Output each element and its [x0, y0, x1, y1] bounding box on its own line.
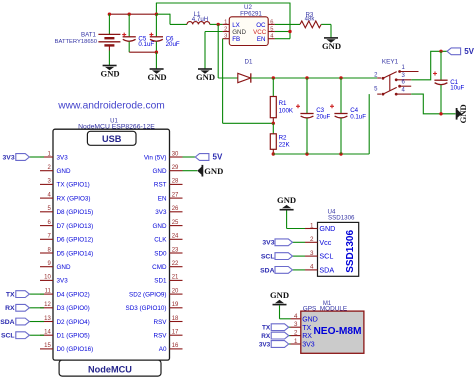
- svg-text:BATTERY18650: BATTERY18650: [55, 39, 97, 45]
- wire U2 VCC EN to VBAT rail: [275, 30, 292, 39]
- pin 17 RSV of U1: [154, 330, 183, 340]
- svg-text:3V3: 3V3: [3, 154, 15, 161]
- svg-text:RST: RST: [154, 182, 167, 189]
- svg-text:2: 2: [310, 236, 314, 243]
- svg-text:SCL: SCL: [261, 254, 275, 261]
- svg-text:USB: USB: [102, 134, 122, 144]
- capacitor C1 10uF: [433, 51, 465, 114]
- svg-text:GND: GND: [277, 195, 296, 205]
- svg-text:3V3: 3V3: [57, 154, 69, 161]
- wire net SDA to U4: [293, 269, 306, 271]
- svg-text:RSV: RSV: [154, 333, 168, 340]
- svg-text:10uF: 10uF: [450, 85, 464, 92]
- svg-text:16: 16: [172, 343, 179, 349]
- svg-text:OC: OC: [256, 22, 266, 29]
- wire U2 FB to R1/R2 divider: [223, 39, 274, 124]
- net flag RX at M1: [261, 332, 288, 340]
- svg-text:Vcc: Vcc: [319, 238, 331, 247]
- wire net 3V3 to U1 pin 1: [29, 156, 44, 158]
- wire net TX to M1: [289, 326, 291, 328]
- svg-text:3V3: 3V3: [259, 341, 271, 348]
- svg-text:0.1uF: 0.1uF: [138, 41, 154, 48]
- svg-text:29: 29: [172, 165, 179, 171]
- svg-text:GND: GND: [322, 41, 341, 51]
- svg-text:SD3 (GPIO10): SD3 (GPIO10): [126, 305, 167, 312]
- label BAT1 BATTERY18650: [55, 32, 97, 45]
- svg-text:6: 6: [270, 19, 273, 25]
- wire C5/C6 ground link: [129, 51, 158, 70]
- svg-text:SDA: SDA: [319, 265, 334, 274]
- svg-text:GND: GND: [57, 168, 71, 175]
- label R1 100K: [279, 100, 294, 114]
- svg-text:4: 4: [310, 264, 314, 271]
- pin 26 3V3 of U1: [155, 206, 182, 216]
- svg-text:SSD1306: SSD1306: [328, 214, 355, 221]
- pin 29 GND of U1: [153, 165, 183, 175]
- pin 23 SD0 of U1: [154, 247, 182, 257]
- svg-text:3V3: 3V3: [57, 278, 69, 285]
- wire U2 GND pin to ground: [205, 32, 223, 70]
- resistor R1 100K: [270, 78, 276, 123]
- svg-text:11: 11: [45, 288, 52, 294]
- svg-text:3V3: 3V3: [262, 240, 274, 247]
- svg-text:Vin (5V): Vin (5V): [144, 154, 167, 161]
- pin 2 GND of U1: [40, 165, 71, 175]
- ground above M1: [270, 290, 289, 305]
- svg-text:KEY1: KEY1: [382, 59, 399, 66]
- svg-text:GND: GND: [196, 72, 215, 82]
- op-amp U2 FP6291 boost converter IC: [223, 17, 275, 46]
- svg-text:TX: TX: [302, 325, 311, 332]
- svg-text:1: 1: [310, 222, 314, 229]
- label U4 SSD1306: [328, 209, 356, 222]
- svg-text:LX: LX: [232, 22, 240, 29]
- wire U2 OC to R3: [275, 23, 300, 25]
- svg-text:D7 (GPIO13): D7 (GPIO13): [57, 223, 94, 230]
- svg-text:3V3: 3V3: [155, 209, 167, 216]
- svg-text:D4 (GPIO2): D4 (GPIO2): [57, 291, 90, 298]
- svg-text:15: 15: [44, 343, 51, 349]
- svg-text:GND: GND: [319, 224, 335, 233]
- wire KEY1 pin 3 to 5V node: [411, 50, 447, 80]
- svg-text:3: 3: [294, 321, 298, 328]
- svg-text:13: 13: [44, 316, 51, 322]
- svg-text:12: 12: [44, 302, 51, 308]
- svg-text:4.7uH: 4.7uH: [192, 16, 209, 23]
- svg-text:RX: RX: [5, 305, 15, 312]
- svg-text:22K: 22K: [279, 142, 291, 149]
- wire KEY1 pin 4 and C1 to ground: [411, 94, 455, 115]
- wire net 3V3 to U4: [293, 241, 306, 243]
- battery BAT1 BATTERY18650: [98, 14, 120, 65]
- pin 5 D8 (GPIO15) of U1: [40, 206, 93, 216]
- svg-text:NodeMCU: NodeMCU: [88, 364, 132, 374]
- label M1 GPS_MODULE: [303, 301, 347, 313]
- svg-text:20uF: 20uF: [166, 41, 180, 48]
- ground at C5/C6: [148, 69, 167, 82]
- svg-text:CMD: CMD: [152, 264, 167, 271]
- svg-text:24: 24: [172, 234, 179, 240]
- svg-text:D5 (GPIO14): D5 (GPIO14): [57, 250, 94, 257]
- ground above U4: [277, 195, 296, 210]
- svg-text:3: 3: [310, 250, 314, 257]
- svg-text:26: 26: [172, 206, 179, 212]
- svg-text:SDA: SDA: [260, 267, 274, 274]
- net flag 3V3 at M1: [259, 341, 289, 349]
- net flag 3V3 at U4: [262, 239, 292, 247]
- ground at R3: [322, 38, 341, 51]
- svg-text:A0: A0: [159, 346, 167, 353]
- svg-text:RX: RX: [261, 333, 271, 340]
- pin numbers 1 2 3 of U2: [224, 19, 227, 39]
- svg-text:EN: EN: [158, 195, 167, 202]
- wire net SDA to U1 pin 13: [29, 321, 44, 323]
- pin 20 SD2 (GPIO9) of U1: [129, 288, 182, 298]
- svg-text:48k: 48k: [305, 17, 316, 23]
- pin 10 3V3 of U1: [40, 275, 68, 285]
- svg-text:D1: D1: [245, 59, 253, 66]
- wire bottom rail to KEY1 pin 5: [273, 94, 369, 156]
- pin names LX GND FB of U2: [232, 22, 246, 43]
- wire net SCL to U4: [293, 255, 306, 257]
- svg-text:17: 17: [172, 330, 179, 336]
- pin 28 RST of U1: [154, 179, 183, 189]
- net flag TX at M1: [262, 324, 289, 332]
- net flag SCL: [1, 332, 29, 340]
- svg-text:TX: TX: [262, 325, 271, 332]
- net flag 3V3: [3, 154, 30, 162]
- junction R2 bottom: [272, 152, 275, 155]
- svg-text:GND: GND: [101, 68, 120, 78]
- net flag 5V at U1 Vin: [195, 153, 223, 162]
- wire L1 to U2 LX with junction node LX: [210, 23, 223, 26]
- pin numbers 6 5 4 of U2: [270, 19, 274, 39]
- pin 16 A0 of U1: [159, 343, 183, 353]
- label U2 FP6291: [240, 4, 262, 17]
- USB connector box of U1: [87, 131, 136, 145]
- wire net 3V3 to M1: [289, 343, 291, 345]
- ground at C1: [457, 104, 469, 123]
- wire U1 GND pin 29: [183, 170, 198, 172]
- svg-text:GND: GND: [232, 29, 246, 36]
- svg-text:GND: GND: [204, 166, 223, 176]
- pin 25 GND of U1: [153, 220, 183, 230]
- svg-text:D8 (GPIO15): D8 (GPIO15): [57, 209, 94, 216]
- label L1 4.7uH: [192, 11, 209, 23]
- svg-text:TX (GPIO1): TX (GPIO1): [57, 182, 90, 189]
- svg-text:10: 10: [44, 275, 51, 281]
- pin 8 D5 (GPIO14) of U1: [40, 247, 93, 257]
- pin 1 3V3 of U1: [40, 151, 68, 161]
- text SSD1306 vertical: [345, 230, 356, 273]
- resistor R3 48k: [300, 21, 321, 28]
- pin 18 RSV of U1: [154, 316, 183, 326]
- wire ground to U4 GND pin: [287, 211, 305, 229]
- pin names OC VCC EN of U2: [253, 22, 267, 43]
- svg-text:R1: R1: [279, 100, 287, 107]
- diode D1: [238, 73, 251, 82]
- svg-text:RSV: RSV: [154, 319, 168, 326]
- pin 24 CLK of U1: [154, 234, 182, 244]
- pin 15 D0 (GPIO16) of U1: [40, 343, 93, 353]
- svg-text:21: 21: [172, 275, 179, 281]
- svg-text:CLK: CLK: [154, 237, 167, 244]
- wire net SCL to U1 pin 14: [29, 334, 44, 336]
- svg-text:EN: EN: [257, 36, 266, 43]
- svg-text:18: 18: [172, 316, 179, 322]
- wire ground to M1 GND pin: [280, 305, 291, 318]
- resistor R2 22K: [270, 123, 276, 154]
- svg-text:GND: GND: [270, 290, 289, 300]
- svg-text:FB: FB: [232, 36, 240, 43]
- ground at U1 pin 29: [197, 165, 223, 177]
- svg-text:14: 14: [44, 330, 51, 336]
- svg-text:5V: 5V: [213, 153, 223, 162]
- inductor L1 4.7uH: [187, 22, 210, 25]
- svg-text:20: 20: [172, 288, 179, 294]
- svg-text:R2: R2: [279, 135, 287, 142]
- svg-text:GND: GND: [57, 264, 71, 271]
- svg-text:GND: GND: [302, 316, 318, 323]
- svg-text:2: 2: [294, 330, 298, 337]
- svg-text:3V3: 3V3: [302, 342, 315, 349]
- svg-text:RX: RX: [302, 333, 312, 340]
- label R3 48k: [305, 12, 316, 22]
- svg-text:3: 3: [224, 34, 227, 40]
- pin numbers 2 5 1 3 6 4 of KEY1: [374, 65, 405, 93]
- svg-text:100K: 100K: [279, 107, 294, 114]
- text www.androiderode.com: [57, 101, 164, 112]
- pin 4 RX (GPIO3) of U1: [40, 192, 90, 202]
- svg-text:D6 (GPIO12): D6 (GPIO12): [57, 237, 94, 244]
- wire VBAT to U2 EN/VCC top rail: [156, 3, 291, 39]
- svg-text:2: 2: [224, 26, 227, 32]
- net flag SDA: [0, 318, 29, 326]
- ground at battery: [101, 66, 120, 79]
- wire net RX to U1 pin 12: [29, 307, 44, 309]
- pin 11 D4 (GPIO2) of U1: [40, 288, 90, 298]
- pin 30 Vin (5V) of U1: [144, 151, 183, 161]
- svg-text:22: 22: [172, 261, 179, 267]
- switch KEY1 DPDT: [377, 70, 418, 95]
- svg-text:1: 1: [294, 338, 298, 345]
- capacitor C5 0.1uF: [122, 14, 154, 52]
- label R2 22K: [279, 135, 291, 149]
- label KEY1: [382, 59, 399, 66]
- svg-text:20uF: 20uF: [316, 113, 330, 120]
- svg-text:25: 25: [172, 220, 179, 226]
- op-amp U1 NodeMCU main rectangle: [53, 129, 170, 360]
- ground at U2: [196, 69, 215, 82]
- label D1: [245, 59, 253, 66]
- svg-text:FP6291: FP6291: [240, 10, 262, 17]
- pin 7 D6 (GPIO12) of U1: [40, 234, 93, 244]
- net flag RX: [5, 304, 29, 312]
- pin 21 SD1 of U1: [154, 275, 182, 285]
- svg-text:VCC: VCC: [253, 29, 267, 36]
- svg-text:SD1: SD1: [154, 278, 167, 285]
- svg-text:4: 4: [294, 313, 298, 320]
- net flag 5V output: [447, 47, 474, 56]
- NodeMCU label box of U1: [59, 360, 161, 376]
- wire R3 to ground: [321, 24, 331, 37]
- pin 6 D7 (GPIO13) of U1: [40, 220, 93, 230]
- svg-text:5V: 5V: [464, 47, 474, 56]
- net flag SDA at U4: [260, 267, 292, 275]
- svg-text:27: 27: [172, 192, 179, 198]
- svg-text:19: 19: [172, 302, 179, 308]
- wire D1 cathode output rail to KEY1 pin 2: [251, 76, 377, 79]
- svg-text:30: 30: [172, 151, 179, 157]
- pin numbers and names 4 GND 3 TX 2 RX 1 3V3 of M1: [294, 313, 318, 349]
- pin 19 SD3 (GPIO10) of U1: [126, 302, 183, 312]
- wire VBAT to L1: [156, 14, 187, 25]
- pin 22 CMD of U1: [152, 261, 182, 271]
- svg-text:RX (GPIO3): RX (GPIO3): [57, 195, 91, 202]
- svg-text:5: 5: [270, 26, 273, 32]
- label U1 NodeMCU ESP8266-12E: [78, 118, 155, 130]
- svg-text:D0 (GPIO16): D0 (GPIO16): [57, 346, 94, 353]
- pin numbers and names 1 GND 2 Vcc 3 SCL 4 SDA of U4: [310, 222, 335, 274]
- capacitor C4 0.1uF: [330, 78, 366, 154]
- wire net RX to M1: [289, 335, 291, 337]
- svg-text:D2 (GPIO4): D2 (GPIO4): [57, 319, 90, 326]
- svg-text:28: 28: [172, 179, 179, 185]
- svg-text:www.androiderode.com: www.androiderode.com: [57, 101, 164, 112]
- capacitor C6 20uF: [149, 14, 180, 52]
- junction dots on battery rail: [108, 13, 158, 16]
- svg-text:0.1uF: 0.1uF: [350, 113, 366, 120]
- net flag TX: [6, 291, 29, 299]
- svg-text:23: 23: [172, 247, 179, 253]
- svg-text:GND: GND: [148, 72, 167, 82]
- svg-text:GND: GND: [458, 104, 468, 123]
- svg-text:D1 (GPIO5): D1 (GPIO5): [57, 333, 90, 340]
- svg-text:GND: GND: [153, 223, 167, 230]
- op-amp U4 SSD1306 OLED rectangle: [305, 222, 359, 276]
- wire battery positive rail: [109, 13, 156, 15]
- pin 9 GND of U1: [40, 261, 71, 271]
- svg-text:BAT1: BAT1: [81, 32, 97, 39]
- junction node FB divider: [272, 122, 275, 125]
- net flag SCL at U4: [261, 253, 293, 261]
- svg-text:SDA: SDA: [0, 319, 14, 326]
- svg-text:NEO-M8M: NEO-M8M: [313, 326, 361, 337]
- svg-text:D3 (GPIO0): D3 (GPIO0): [57, 305, 90, 312]
- svg-text:GND: GND: [153, 168, 167, 175]
- pin 12 D3 (GPIO0) of U1: [40, 302, 90, 312]
- capacitor C3 20uF: [296, 78, 331, 154]
- svg-text:SCL: SCL: [319, 252, 333, 261]
- pin 3 TX (GPIO1) of U1: [40, 179, 90, 189]
- op-amp M1 GPS module rectangle NEO-M8M: [291, 311, 364, 353]
- pin 13 D2 (GPIO4) of U1: [40, 316, 90, 326]
- svg-text:SD2 (GPIO9): SD2 (GPIO9): [129, 291, 166, 298]
- svg-text:SCL: SCL: [1, 333, 15, 340]
- svg-text:1: 1: [224, 19, 227, 25]
- pin 27 EN of U1: [158, 192, 183, 202]
- wire net TX to U1 pin 11: [29, 293, 44, 295]
- pin 14 D1 (GPIO5) of U1: [40, 330, 90, 340]
- wire U1 Vin to 5V flag: [183, 156, 196, 158]
- wire LX node to D1 anode: [218, 24, 237, 78]
- svg-text:SD0: SD0: [154, 250, 167, 257]
- svg-text:SSD1306: SSD1306: [345, 230, 356, 273]
- svg-text:TX: TX: [6, 292, 15, 299]
